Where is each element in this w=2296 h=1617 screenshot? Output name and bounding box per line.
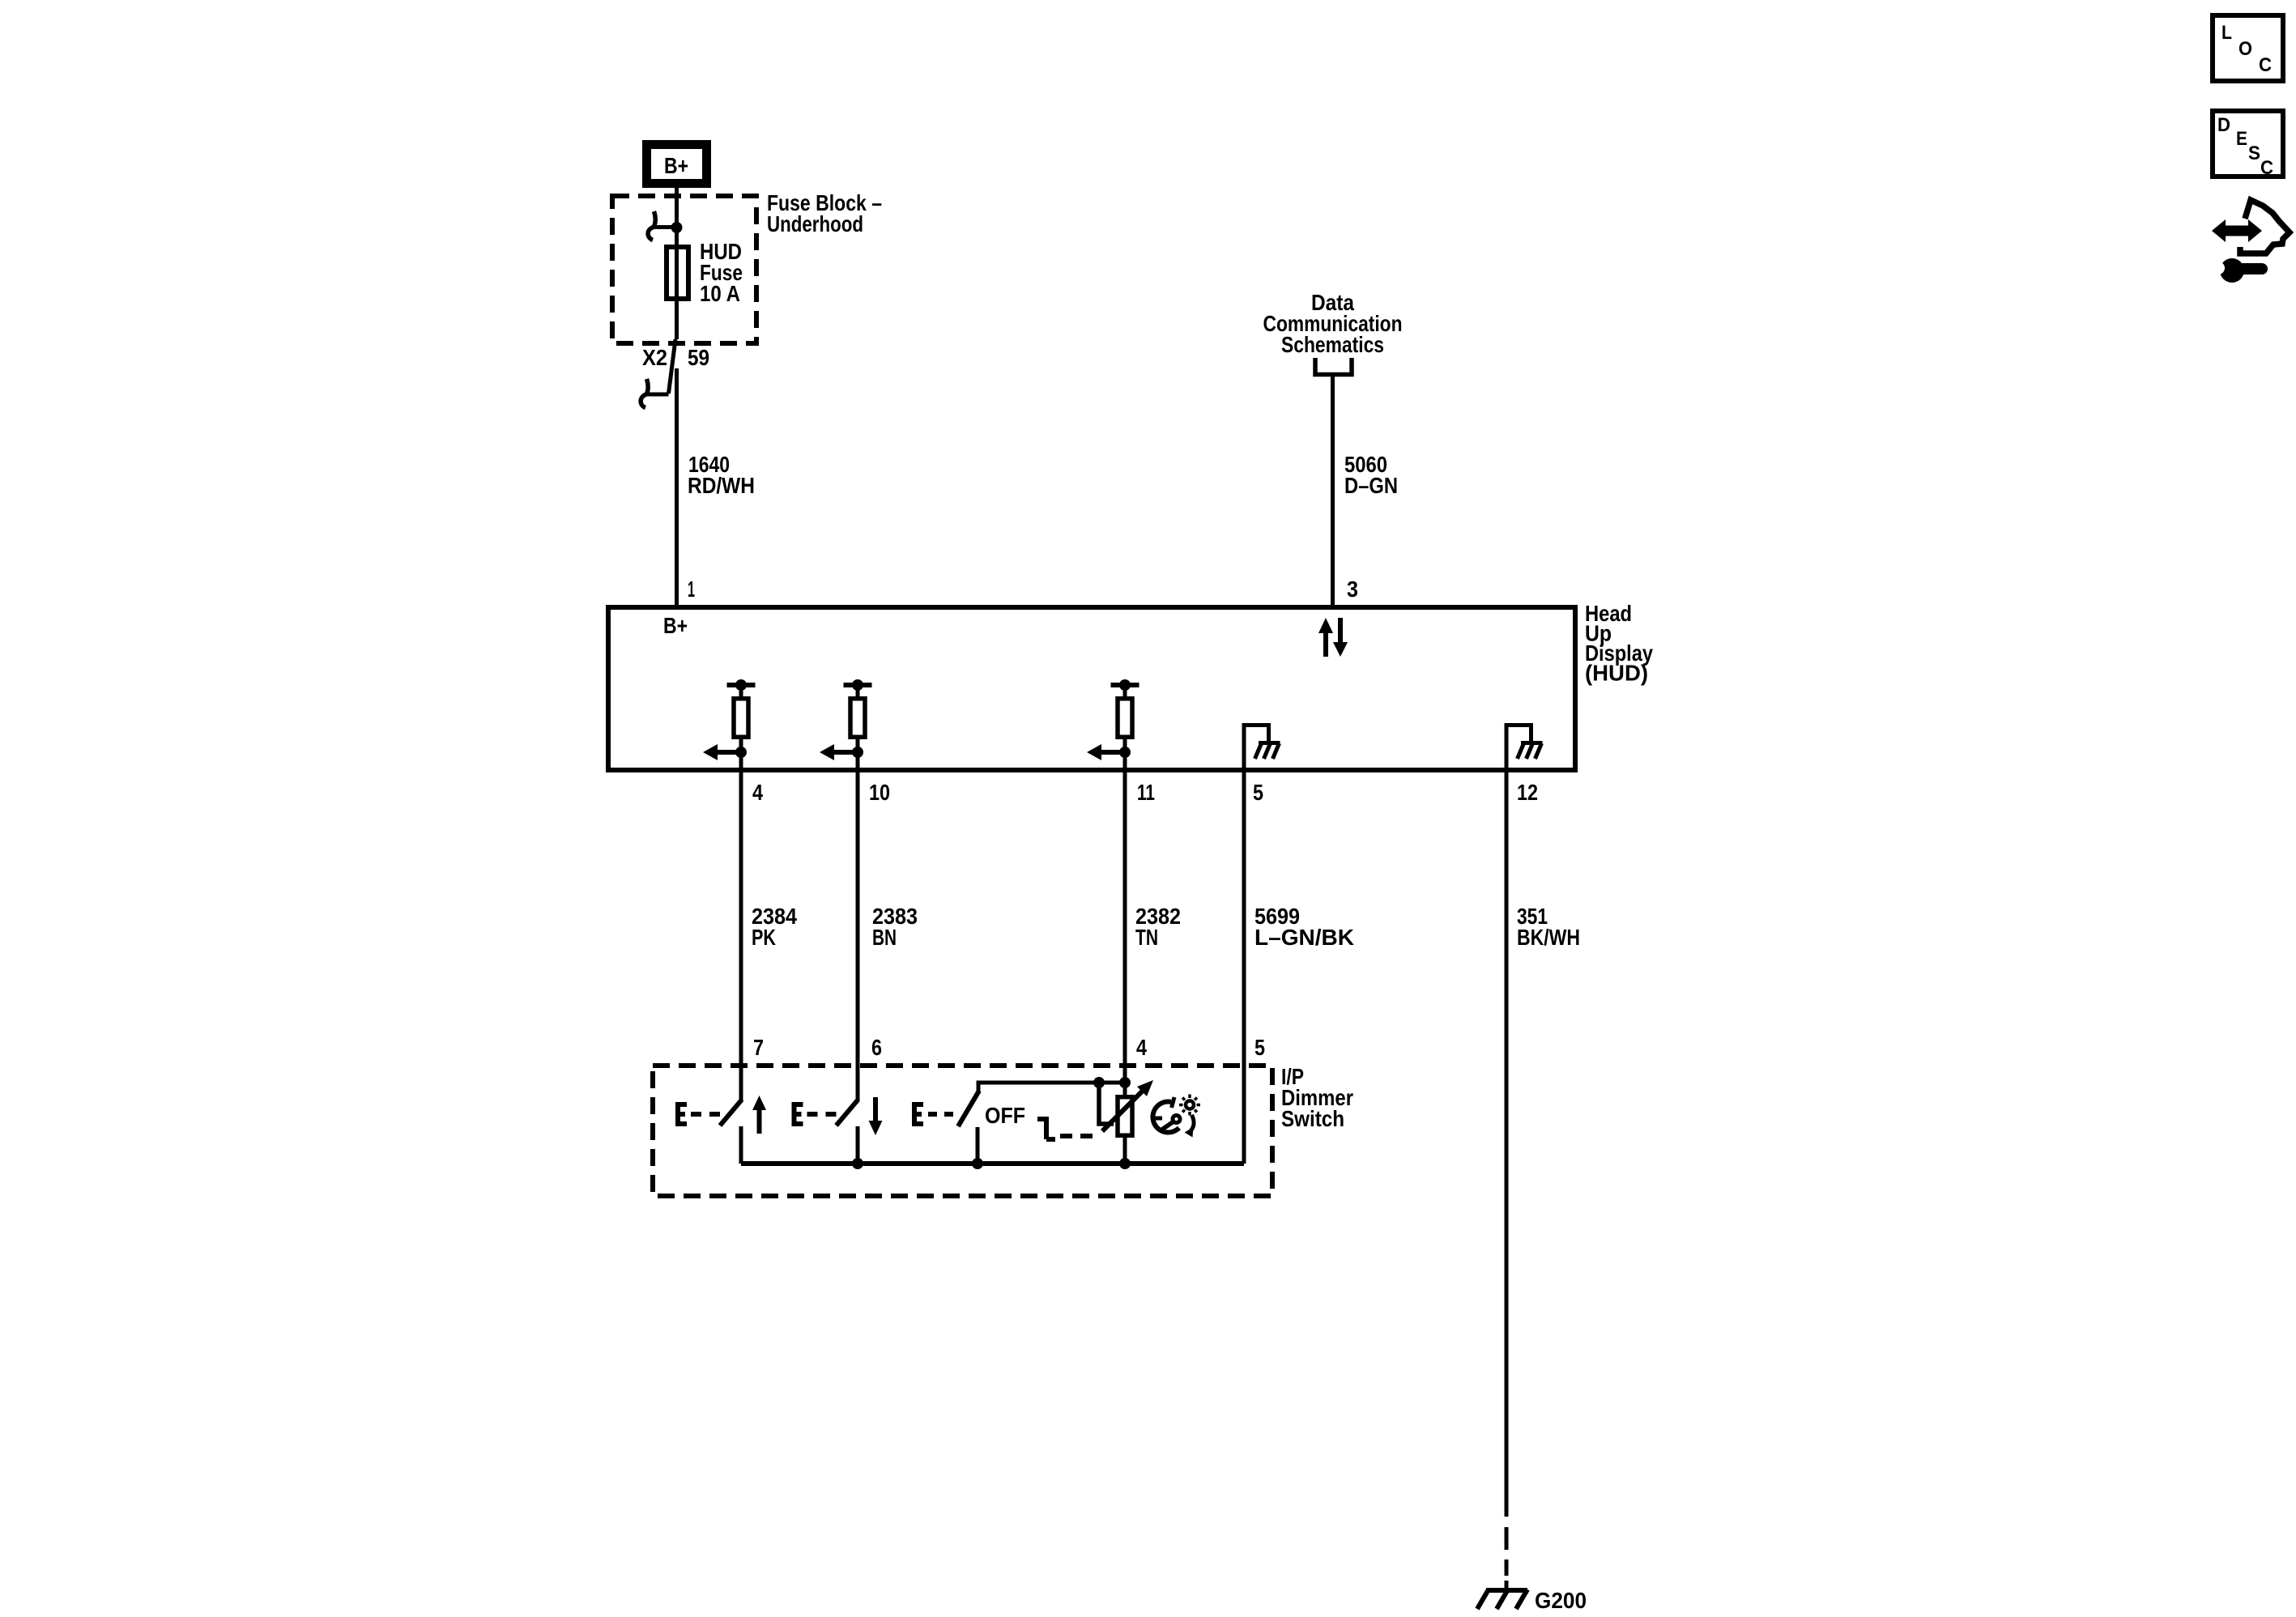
ground G200: [1477, 1589, 1527, 1609]
svg-text:D: D: [2217, 114, 2230, 136]
svg-text:S: S: [2248, 143, 2260, 164]
junction dot bus pin6: [852, 1158, 863, 1169]
svg-text:10 A: 10 A: [700, 281, 740, 306]
svg-text:59: 59: [688, 345, 709, 370]
svg-text:10: 10: [869, 780, 890, 805]
LOC legend box: [2213, 15, 2283, 81]
svg-text:BK/WH: BK/WH: [1517, 925, 1580, 950]
label 351 BK/WH: [1517, 904, 1580, 950]
svg-text:TN: TN: [1135, 925, 1158, 950]
svg-text:Schematics: Schematics: [1281, 332, 1384, 357]
connector-repair legend icon (double arrow, outline, wrench): [2212, 200, 2290, 283]
svg-text:Underhood: Underhood: [767, 211, 863, 236]
wire 5060 D-GN to HUD pin 3: [1331, 374, 1335, 607]
svg-text:3: 3: [1347, 577, 1358, 602]
svg-text:(HUD): (HUD): [1585, 661, 1648, 686]
connector X2 pin 59 slant: [669, 339, 676, 394]
up arrow (dim up): [752, 1096, 766, 1134]
Head Up Display HUD module box: [608, 607, 1575, 770]
switch OFF: [912, 1083, 1125, 1164]
svg-text:C: C: [2260, 157, 2273, 179]
junction dot: [1119, 1077, 1131, 1088]
internal resistor at pin 4: [703, 679, 756, 770]
svg-text:BN: BN: [872, 925, 897, 950]
svg-text:Switch: Switch: [1281, 1106, 1344, 1131]
svg-text:B+: B+: [663, 613, 688, 638]
label I/P Dimmer Switch: [1281, 1064, 1353, 1131]
svg-text:12: 12: [1517, 780, 1538, 805]
junction dot bus rheostat: [1119, 1158, 1131, 1169]
svg-text:PK: PK: [752, 925, 776, 950]
junction dot bus OFF: [972, 1158, 983, 1169]
wire 351 BK/WH pin12 to G200: [1505, 770, 1509, 1517]
label Data Communication Schematics: [1263, 290, 1403, 357]
svg-text:L–GN/BK: L–GN/BK: [1254, 925, 1354, 950]
B+ battery feed box: [647, 145, 707, 184]
wire 5699 L-GN/BK pin5 to dimmer pin5: [1242, 770, 1246, 1164]
wire B+ to fuse: [675, 188, 679, 339]
down arrow (dim down): [869, 1097, 883, 1135]
off-page bracket to data schematics: [1315, 358, 1352, 375]
fuse HUD 10A: [667, 247, 688, 299]
switch up (pin 7): [675, 1100, 742, 1164]
internal ground at pin 12: [1506, 726, 1543, 771]
svg-text:4: 4: [1136, 1035, 1147, 1060]
internal resistor at pin 11: [1087, 679, 1139, 770]
svg-text:X2: X2: [642, 345, 667, 370]
svg-text:5: 5: [1254, 1035, 1265, 1060]
DESC legend box: [2213, 111, 2283, 179]
svg-text:G200: G200: [1535, 1588, 1587, 1613]
serial data up-down arrows at pin 3: [1318, 618, 1348, 657]
svg-text:O: O: [2238, 38, 2252, 60]
wire 1640 RD/WH to HUD pin 1: [675, 368, 679, 607]
junction dot: [1093, 1077, 1105, 1088]
svg-text:D–GN: D–GN: [1344, 473, 1398, 498]
label 1640 RD/WH: [688, 452, 755, 498]
svg-text:B+: B+: [664, 153, 688, 178]
wire 2383 BN pin10 to dimmer pin6: [856, 770, 860, 1101]
internal ground at pin 5: [1244, 726, 1280, 771]
svg-text:1: 1: [688, 577, 695, 602]
junction dot at fuse feed: [671, 222, 683, 233]
wire 2382 TN pin11 to dimmer pin4: [1123, 770, 1127, 1095]
connector hook terminal at fuse feed: [648, 211, 676, 240]
svg-text:OFF: OFF: [985, 1103, 1025, 1128]
rheostat bracket: [1099, 1085, 1114, 1124]
label 5699 L-GN/BK: [1254, 904, 1354, 950]
connector hook terminal X2: [641, 379, 668, 408]
svg-text:E: E: [2236, 128, 2247, 150]
svg-text:C: C: [2259, 54, 2272, 76]
rheostat (variable resistor): [1102, 1080, 1153, 1164]
label 2384 PK: [752, 904, 797, 950]
wire 2384 PK pin4 to dimmer pin7: [739, 770, 743, 1101]
svg-text:7: 7: [753, 1035, 764, 1060]
dashed wire to G200: [1505, 1527, 1509, 1590]
label 2383 BN: [872, 904, 918, 950]
I/P dimmer switch dashed box: [653, 1066, 1272, 1196]
mechanical link to rheostat: [1037, 1117, 1093, 1139]
dimmer common bus: [741, 1161, 1244, 1166]
svg-text:RD/WH: RD/WH: [688, 473, 755, 498]
fuse block underhood dashed box: [612, 196, 756, 343]
switch down (pin 6): [792, 1100, 858, 1164]
svg-text:L: L: [2221, 22, 2232, 44]
svg-text:4: 4: [752, 780, 763, 805]
internal resistor at pin 10: [820, 679, 872, 770]
label HUD Fuse 10 A: [700, 239, 743, 306]
label 2382 TN: [1135, 904, 1181, 950]
label 5060 D-GN: [1344, 452, 1398, 498]
label Fuse Block - Underhood: [767, 190, 882, 236]
svg-text:6: 6: [871, 1035, 882, 1060]
label Head Up Display (HUD): [1585, 601, 1653, 686]
svg-text:5: 5: [1253, 780, 1263, 805]
panel dimming gauge icon: [1152, 1095, 1200, 1138]
svg-text:11: 11: [1137, 780, 1155, 805]
